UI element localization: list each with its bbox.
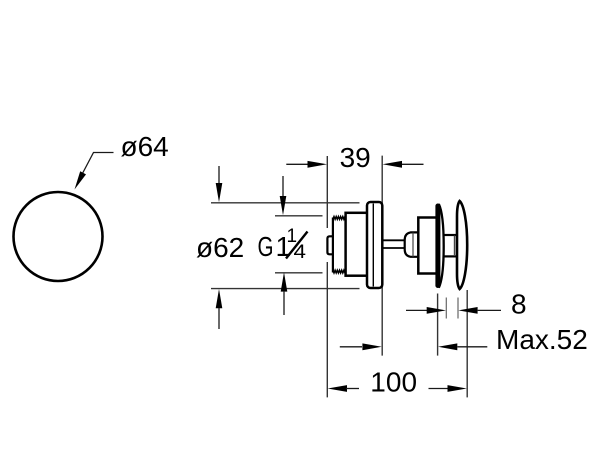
dim 39 line left tail bbox=[286, 163, 308, 165]
cap dome bbox=[457, 201, 467, 289]
dim Max.52 right arrow bbox=[438, 343, 457, 350]
flange inner line bbox=[372, 204, 374, 287]
dim 39 right tail bbox=[402, 163, 424, 165]
dim Max.52 left arrow bbox=[362, 343, 381, 350]
G1 1/4 top arrow bbox=[280, 196, 287, 215]
thread left face bbox=[332, 218, 334, 273]
G1 1/4 top arrow shaft bbox=[282, 176, 284, 197]
leader arrow bbox=[75, 171, 87, 189]
svg-text:Max.52: Max.52 bbox=[496, 324, 588, 355]
svg-text:4: 4 bbox=[294, 242, 307, 263]
connector top line bbox=[444, 234, 457, 236]
dim 39 right arrow bbox=[383, 161, 403, 168]
stem bottom line bbox=[383, 247, 405, 249]
flange (rounded) bbox=[367, 202, 382, 288]
G1 1/4 bottom arrow shaft bbox=[283, 291, 285, 315]
svg-text:ø62: ø62 bbox=[196, 232, 244, 263]
svg-text:100: 100 bbox=[370, 367, 417, 398]
ø62 bottom arrow bbox=[216, 289, 223, 308]
dim 100 left arrow bbox=[328, 385, 347, 392]
thread body fill bbox=[333, 217, 346, 273]
dim 8 line left tail bbox=[406, 309, 428, 311]
extension line x=458 (cap left, for 8) bbox=[457, 298, 459, 319]
washer arc bbox=[439, 204, 444, 288]
svg-text:G: G bbox=[258, 231, 274, 262]
leader line for ø64 bbox=[79, 153, 114, 182]
svg-text:8: 8 bbox=[511, 289, 527, 320]
washer bar (flange disc) bbox=[435, 204, 440, 289]
G1 1/4 bottom extension line bbox=[275, 272, 323, 274]
extension line x=382 (right end of 39 / left of Max.52) bbox=[381, 156, 383, 356]
G1 1/4 bottom arrow bbox=[281, 272, 288, 291]
connector inner line bbox=[454, 236, 456, 257]
extension line x=327 (left end of 39 / 100) upper part bbox=[326, 156, 328, 228]
dim 8 right tail bbox=[478, 309, 501, 311]
dim 8 left arrow bbox=[427, 307, 446, 314]
dim 100 right line bbox=[429, 388, 449, 390]
ø62 top arrow bbox=[216, 183, 223, 202]
tailpiece tab (left end cap) bbox=[327, 236, 333, 254]
dim 100 right arrow bbox=[448, 385, 467, 392]
extension line x=467 (cap outer) bbox=[466, 290, 468, 397]
dim 39 left arrow bbox=[308, 161, 328, 168]
extension line x=437.5 (washer face) bbox=[437, 294, 439, 356]
knob inner line bbox=[412, 233, 414, 257]
dim 8 right arrow bbox=[458, 307, 477, 314]
thread top teeth bbox=[333, 217, 346, 220]
fraction slash bbox=[286, 232, 308, 259]
extension line x=446 (washer bulge, for 8) bbox=[445, 298, 447, 319]
thread bottom teeth bbox=[333, 270, 346, 273]
knob bell bbox=[405, 232, 418, 256]
G1 1/4 top extension line bbox=[275, 215, 323, 217]
stem top line bbox=[383, 239, 405, 241]
dim Max.52 left tail bbox=[340, 346, 362, 348]
extension line x=327 lower part bbox=[326, 262, 328, 397]
main body rectangle bbox=[346, 213, 372, 276]
ø62 top arrow shaft bbox=[218, 166, 220, 184]
svg-text:ø64: ø64 bbox=[121, 131, 169, 162]
ø62 bottom extension line bbox=[211, 288, 360, 290]
connector bottom line bbox=[444, 255, 457, 257]
dim 100 left line bbox=[346, 388, 359, 390]
ø62 top extension line bbox=[211, 202, 360, 204]
ø62 bottom arrow shaft bbox=[218, 308, 220, 329]
valve body rectangle bbox=[418, 218, 437, 274]
dim Max.52 right tail bbox=[457, 346, 487, 348]
plug cap front view circle ø64 bbox=[14, 192, 103, 281]
svg-text:39: 39 bbox=[340, 142, 371, 173]
